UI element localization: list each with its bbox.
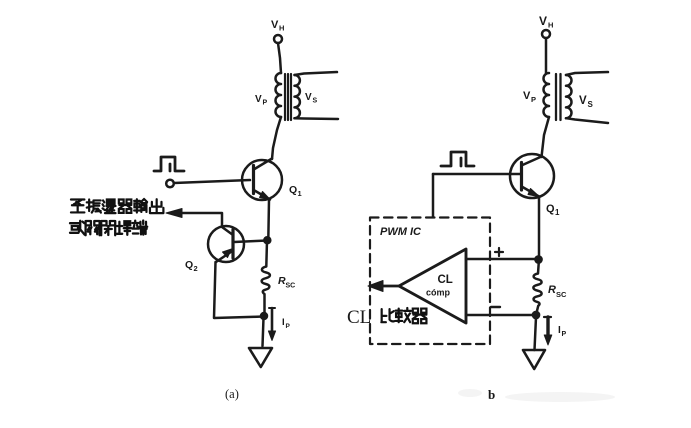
svg-text:P: P (531, 95, 536, 104)
svg-text:cómp: cómp (426, 288, 451, 298)
svg-text:P: P (562, 331, 567, 338)
svg-text:CL: CL (347, 307, 371, 328)
svg-text:SC: SC (286, 283, 296, 290)
svg-text:P: P (263, 100, 268, 107)
svg-text:PWM IC: PWM IC (380, 226, 422, 238)
svg-text:Q: Q (289, 184, 297, 196)
svg-text:V: V (523, 90, 531, 102)
svg-text:V: V (255, 94, 262, 105)
svg-text:V: V (539, 14, 547, 28)
svg-text:R: R (548, 284, 556, 296)
svg-text:(a): (a) (225, 387, 239, 401)
svg-text:S: S (313, 98, 318, 105)
svg-text:Q: Q (546, 203, 555, 215)
svg-text:H: H (279, 24, 284, 33)
svg-text:CL: CL (438, 274, 453, 286)
svg-text:S: S (588, 100, 594, 109)
svg-text:SC: SC (556, 290, 567, 299)
svg-text:b: b (488, 387, 495, 402)
svg-text:P: P (286, 323, 291, 330)
svg-text:H: H (548, 21, 553, 30)
svg-text:1: 1 (555, 208, 560, 217)
svg-text:1: 1 (298, 189, 302, 198)
svg-text:I: I (282, 317, 285, 328)
svg-text:Q: Q (185, 259, 193, 271)
svg-text:V: V (579, 95, 587, 107)
svg-text:2: 2 (194, 264, 198, 273)
svg-text:V: V (305, 92, 312, 103)
svg-text:V: V (271, 19, 279, 31)
